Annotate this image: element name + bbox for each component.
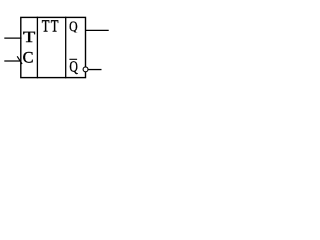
svg-text:Q: Q [69, 19, 78, 35]
trim of Q tail [69, 33, 80, 35]
svg-text:Q: Q [69, 58, 78, 75]
clock edge slash arrow [17, 56, 22, 64]
overline of Q-bar [69, 58, 77, 60]
wire Q-bar output [88, 69, 101, 71]
svg-text:T: T [51, 17, 59, 36]
svg-text:T: T [23, 29, 36, 46]
flip-flop U1 body [21, 17, 86, 77]
svg-text:T: T [42, 17, 50, 36]
svg-text:C: C [23, 50, 34, 67]
wire Q output [86, 29, 109, 31]
output section divider [65, 17, 67, 79]
inversion bubble [83, 67, 88, 72]
wire T input [4, 37, 21, 39]
wire C input [4, 60, 21, 62]
input section divider [36, 17, 38, 79]
